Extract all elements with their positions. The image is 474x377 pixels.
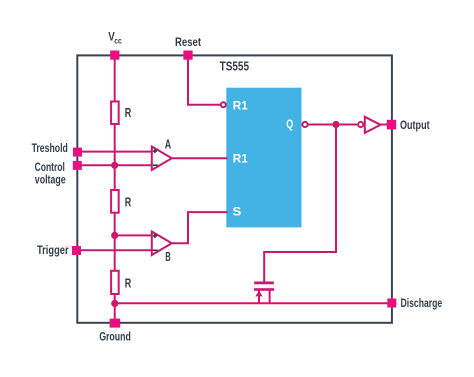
svg-text:Reset: Reset [175, 35, 201, 49]
svg-text:R: R [125, 195, 132, 210]
svg-text:A: A [165, 136, 172, 151]
svg-text:Ground: Ground [99, 329, 131, 343]
svg-text:cc: cc [114, 36, 122, 46]
svg-text:R: R [125, 276, 132, 291]
svg-text:Q: Q [286, 117, 293, 131]
svg-text:S: S [233, 204, 242, 218]
svg-text:voltage: voltage [35, 173, 66, 187]
svg-text:R1: R1 [233, 99, 248, 113]
svg-text:Output: Output [400, 118, 430, 132]
svg-text:Discharge: Discharge [401, 296, 443, 310]
svg-text:Treshold: Treshold [32, 141, 68, 155]
svg-text:TS555: TS555 [220, 58, 249, 73]
svg-text:R1: R1 [233, 151, 248, 165]
svg-text:R: R [125, 105, 132, 120]
svg-text:B: B [165, 249, 171, 264]
svg-text:Trigger: Trigger [37, 243, 69, 257]
